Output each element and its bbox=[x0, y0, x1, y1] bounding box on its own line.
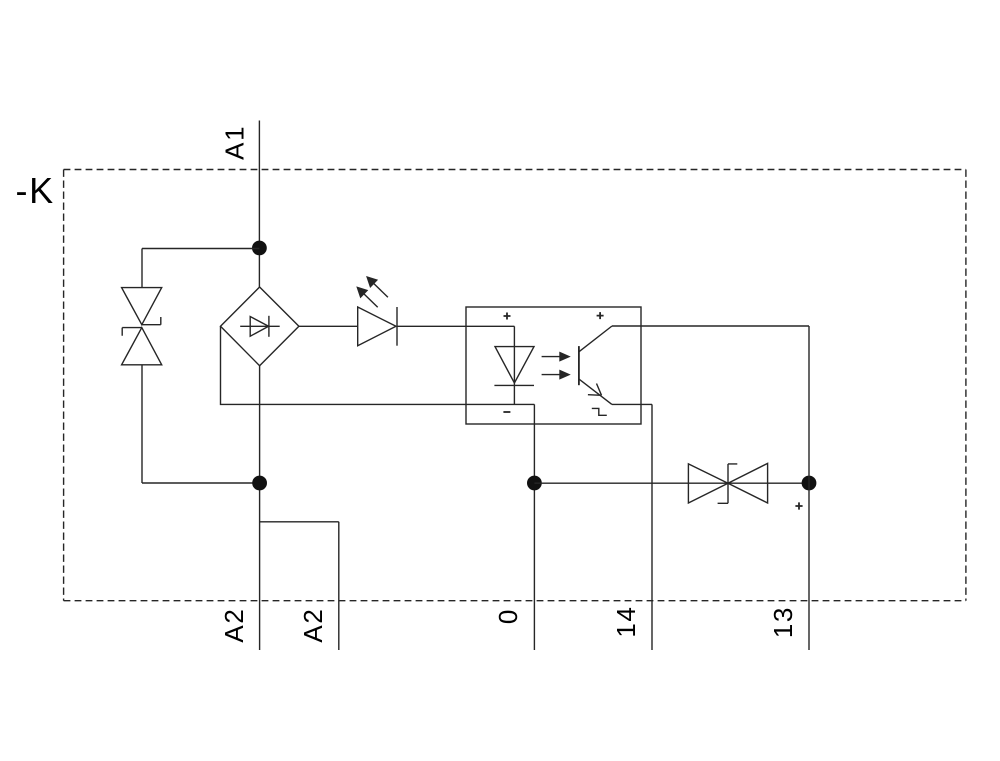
svg-text:A2: A2 bbox=[219, 608, 249, 643]
terminal label A2 (second) bbox=[298, 608, 328, 643]
terminal label A2 (first) bbox=[219, 608, 249, 643]
svg-text:0: 0 bbox=[493, 608, 523, 624]
terminal label 13 bbox=[768, 606, 798, 638]
optocoupler U1 plus mark (input) bbox=[504, 313, 511, 320]
node A2 junction dot bbox=[252, 476, 267, 491]
optocoupler U1 switching step symbol bbox=[592, 408, 607, 415]
optocoupler U1 internal LED bbox=[494, 326, 534, 404]
terminal label A1 bbox=[219, 125, 249, 160]
LED V3 bbox=[358, 307, 397, 346]
optocoupler U1 body bbox=[466, 307, 641, 424]
LED V3 emission arrows bbox=[357, 277, 388, 307]
wire second A2 branch bbox=[260, 522, 339, 650]
diode inside V2 bbox=[240, 316, 280, 337]
node 13 junction dot bbox=[802, 476, 817, 491]
wire V2 left vertex loop to optocoupler LED return bbox=[221, 326, 535, 404]
wire collector to terminal 13 bbox=[612, 325, 809, 327]
label -K bbox=[16, 170, 55, 211]
wire LED V3 to optocoupler input bbox=[397, 325, 514, 327]
wire V1 bottom lead to node A2 bbox=[142, 365, 260, 483]
terminal label 0 bbox=[493, 608, 523, 624]
node 0 junction dot bbox=[527, 476, 542, 491]
wire emitter to terminal 14 bbox=[612, 404, 652, 650]
svg-text:14: 14 bbox=[611, 606, 641, 638]
svg-text:13: 13 bbox=[768, 606, 798, 638]
svg-text:A1: A1 bbox=[219, 125, 249, 160]
optocoupler U1 plus mark (output) bbox=[597, 312, 604, 319]
wire V2 bottom to node A2 and terminal A2 bbox=[259, 366, 261, 650]
terminal label 14 bbox=[611, 606, 641, 638]
suppressor diode V4 (bidirectional TVS, horizontal) bbox=[688, 463, 767, 503]
optocoupler U1 light transfer arrows bbox=[542, 353, 569, 379]
bridge rectifier V2 (diamond) bbox=[221, 287, 299, 366]
optocoupler U1 minus mark bbox=[503, 411, 510, 413]
wire A1 vertical lead bbox=[258, 121, 260, 288]
wire terminal 13 vertical bbox=[808, 326, 810, 650]
svg-text:-K: -K bbox=[16, 170, 55, 211]
suppressor diode V1 (bidirectional TVS, vertical) bbox=[122, 288, 162, 365]
plus mark at node 13 bbox=[795, 502, 802, 509]
enclosure dashed boundary -K bbox=[64, 170, 966, 601]
wire optocoupler LED return to terminal 0 bbox=[533, 404, 535, 650]
node A1 junction dot bbox=[252, 241, 267, 256]
optocoupler U1 phototransistor bbox=[579, 326, 612, 404]
svg-text:A2: A2 bbox=[298, 608, 328, 643]
wire node 0 to suppressor V4 and node 13 bbox=[534, 482, 809, 484]
wire V1 top lead bbox=[141, 249, 143, 288]
wire from node A1 to suppressor V1 bbox=[142, 248, 259, 250]
wire V2 right vertex to LED V3 bbox=[299, 325, 358, 327]
